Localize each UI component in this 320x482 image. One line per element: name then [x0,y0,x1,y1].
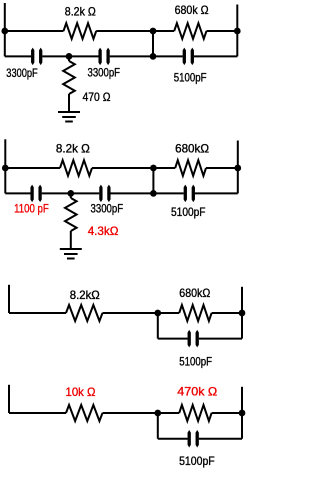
wire right terminal vertical (circuit 1) [236,5,238,57]
svg-text:8.2k Ω: 8.2k Ω [65,5,96,19]
wire bottom wire to cap1 (circuit 2) [5,192,30,194]
svg-text:3300pF: 3300pF [91,201,124,215]
resistor 4.3kΩ (circuit 2) [65,198,77,231]
wire middle vertical tie (circuit 1) [152,31,154,56]
wire left terminal vertical (circuit 4) [8,385,10,413]
wire middle vertical tie (circuit 2) [152,168,154,193]
wire bottom wire cap1 to cap2 (circuit 1) [42,55,98,57]
wire parallel branch left vertical (circuit 3) [157,313,159,339]
junction node mid-bottom (circuit 2) [150,190,157,197]
wire top wire R 8.2k to R 680k (circuit 1) [96,30,174,32]
svg-text:680k Ω: 680k Ω [175,3,209,17]
wire cap branch wire left (circuit 4) [158,438,188,440]
wire left terminal vertical (circuit 3) [8,285,10,313]
wire top wire left to R 8.2k (circuit 1) [5,30,64,32]
wire top wire R 8.2k to R 680k (circuit 2) [92,167,175,169]
wire stub junction to R 470 (circuit 1) [68,56,70,61]
wire bottom wire to cap1 (circuit 1) [5,55,31,57]
wire right terminal vertical (circuit 3) [241,287,243,339]
junction node parallel-right (circuit 4) [239,410,246,417]
wire bottom wire cap2 to cap3 (circuit 2) [111,192,184,194]
wire stub junction to R 4.3k (circuit 2) [70,193,72,198]
wire bottom wire cap1 to cap2 (circuit 2) [42,192,100,194]
junction node parallel-left (circuit 4) [154,410,161,417]
svg-text:5100pF: 5100pF [179,354,212,368]
wire left terminal vertical (circuit 2) [4,139,6,193]
svg-text:1100 pF: 1100 pF [14,202,49,216]
capacitor 5100pF (circuit 2) plates [184,185,195,203]
junction node left-top (circuit 2) [2,165,9,172]
capacitor 3300pF (circuit 2) plates [99,185,110,203]
wire main wire left to R 8.2k (circuit 3) [9,312,66,314]
wire parallel branch left vertical (circuit 4) [157,413,159,439]
wire top wire R 680k to right terminal (circuit 1) [207,30,238,32]
junction node right-top (circuit 1) [234,28,241,35]
svg-text:470 Ω: 470 Ω [83,90,111,104]
resistor 10kΩ (circuit 4) [66,405,102,421]
junction node parallel-right (circuit 3) [239,310,246,317]
svg-text:470k Ω: 470k Ω [177,385,217,399]
resistor 470kΩ (circuit 4) [179,405,211,421]
resistor 8.2kΩ (circuit 3) [66,305,102,321]
junction node left-top (circuit 1) [1,28,8,35]
svg-text:10k Ω: 10k Ω [66,385,96,399]
junction node mid-top (circuit 2) [150,165,157,172]
svg-text:3300pF: 3300pF [88,65,121,79]
ground (circuit 2) [60,249,82,259]
capacitor 5100pF (circuit 3) plates [188,330,199,348]
junction node mid-top (circuit 1) [150,28,157,35]
resistor 680kΩ (circuit 2) [175,160,206,176]
svg-text:5100pF: 5100pF [174,71,207,85]
svg-text:4.3kΩ: 4.3kΩ [88,224,119,238]
circuit schematic: four RC twin-T / lag filter networks [0,0,255,482]
resistor 8.2kΩ (circuit 2) [60,160,92,176]
wire stub R 4.3k to ground (circuit 2) [70,231,72,249]
wire main wire R 680k to right terminal (circuit 3) [212,312,242,314]
junction node mid-bottom (circuit 1) [150,53,157,60]
capacitor 3300pF right (circuit 1) plates [98,48,109,66]
wire top wire left to R 8.2k (circuit 2) [5,167,60,169]
svg-text:8.2k Ω: 8.2k Ω [56,142,90,156]
svg-text:8.2kΩ: 8.2kΩ [70,288,100,302]
wire right terminal vertical (circuit 2) [237,141,239,194]
capacitor 1100pF (circuit 2) plates [30,185,41,203]
svg-text:680kΩ: 680kΩ [175,141,209,155]
svg-text:5100pF: 5100pF [171,205,206,219]
wire top wire R 680k to right terminal (circuit 2) [206,167,238,169]
svg-text:3300pF: 3300pF [6,66,37,80]
svg-text:5100pF: 5100pF [179,454,215,468]
wire bottom wire cap2 to cap3 (circuit 1) [110,55,183,57]
wire stub R 470 to ground (circuit 1) [68,94,70,112]
wire main wire R 470k to right terminal (circuit 4) [212,412,242,414]
junction node parallel-left (circuit 3) [154,310,161,317]
wire bottom wire cap3 to right terminal (circuit 2) [195,192,238,194]
junction node R470 tap (circuit 1) [66,53,73,60]
ground (circuit 1) [58,112,80,122]
junction node right-top (circuit 2) [234,165,241,172]
resistor 470Ω (circuit 1) [63,61,75,94]
junction node R4.3k tap (circuit 2) [67,190,74,197]
capacitor 3300pF left (circuit 1) plates [31,48,42,66]
wire left terminal vertical (circuit 1) [4,3,6,56]
wire cap branch wire left (circuit 3) [158,338,188,340]
capacitor 5100pF (circuit 1) plates [183,48,194,66]
svg-text:680kΩ: 680kΩ [179,286,210,300]
resistor 680kΩ (circuit 1) [174,23,206,39]
wire main wire R 10k to R 470k (circuit 4) [103,412,180,414]
wire cap branch wire right (circuit 3) [199,338,242,340]
wire main wire left to R 10k (circuit 4) [9,412,66,414]
wire cap branch wire right (circuit 4) [199,438,242,440]
resistor 8.2kΩ (circuit 1) [64,23,97,39]
capacitor 5100pF (circuit 4) plates [188,430,199,448]
wire main wire R 8.2k to R 680k (circuit 3) [103,312,180,314]
resistor 680kΩ (circuit 3) [179,305,211,321]
wire bottom wire cap3 to right terminal (circuit 1) [194,55,237,57]
wire right terminal vertical (circuit 4) [241,387,243,439]
